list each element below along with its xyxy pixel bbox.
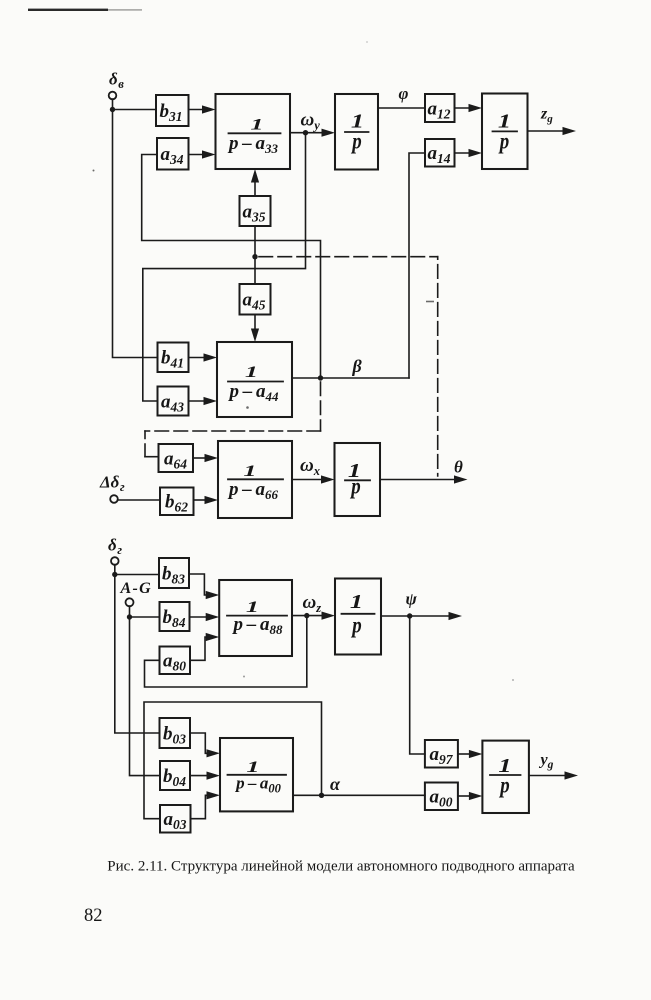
scan streak top left xyxy=(28,9,142,11)
wire xyxy=(129,606,131,617)
svg-text:Рис. 2.11. Структура линейной: Рис. 2.11. Структура линейной модели авт… xyxy=(107,859,575,875)
svg-text:yg: yg xyxy=(539,752,554,772)
svg-text:a34: a34 xyxy=(161,144,184,167)
wire beta to a14 xyxy=(409,153,425,378)
gain block a14 xyxy=(425,139,455,167)
wire b41 to U4 with arrow xyxy=(189,353,218,361)
svg-text:p: p xyxy=(498,128,509,154)
junction omega_y xyxy=(303,130,308,135)
wire b83 to U7 with arrow xyxy=(189,574,219,599)
wire omega_y feedback to a43 xyxy=(143,133,306,401)
svg-text:a80: a80 xyxy=(163,651,186,674)
svg-text:ωx: ωx xyxy=(300,455,320,478)
wire xyxy=(112,99,114,109)
wire a64 to U5 with arrow xyxy=(193,454,218,462)
terminal circle delta delta_g xyxy=(110,495,118,503)
svg-text:p – a44: p – a44 xyxy=(227,381,279,404)
integrator block U3 1/p xyxy=(482,94,528,170)
svg-text:p – a33: p – a33 xyxy=(227,133,279,156)
wire A-G to b84 xyxy=(130,616,160,618)
svg-text:p – a00: p – a00 xyxy=(234,774,282,796)
svg-text:a64: a64 xyxy=(164,449,187,472)
svg-text:82: 82 xyxy=(84,906,103,926)
gain block b41 xyxy=(158,343,189,373)
dashed wire beta to a64 xyxy=(145,378,321,457)
wire U1 output to U2 with arrow xyxy=(290,129,335,137)
svg-text:p: p xyxy=(351,612,362,638)
junction alpha xyxy=(319,793,324,798)
svg-text:Δδг: Δδг xyxy=(99,473,125,495)
gain block a80 xyxy=(160,647,191,675)
wire y_g output arrow xyxy=(529,771,578,779)
wire theta node vertical a35-a45 xyxy=(254,226,256,284)
wire xyxy=(114,565,116,575)
wire a43 to U4 with arrow xyxy=(189,397,218,405)
wire a12 to U3 with arrow xyxy=(455,104,483,112)
junction theta tap xyxy=(252,254,257,259)
svg-text:b62: b62 xyxy=(165,492,188,515)
integrator block U9 1/(p-a00) xyxy=(220,738,293,811)
svg-text:ψ: ψ xyxy=(406,590,418,609)
svg-text:b84: b84 xyxy=(163,607,186,630)
wire a03 to U9 with arrow xyxy=(191,791,221,819)
dashed wire theta to tap (horizontal) xyxy=(255,256,438,258)
gain block a00 xyxy=(425,783,458,811)
svg-text:θ: θ xyxy=(454,458,463,477)
svg-text:p: p xyxy=(351,128,362,154)
svg-text:p: p xyxy=(350,473,361,499)
svg-text:b83: b83 xyxy=(162,564,185,587)
gain block b31 xyxy=(156,95,189,126)
svg-text:b41: b41 xyxy=(161,348,184,371)
svg-text:b04: b04 xyxy=(163,766,186,789)
svg-text:φ: φ xyxy=(399,84,409,103)
wire beta feedback to a34 xyxy=(142,155,321,379)
junction omega_z xyxy=(304,613,309,618)
terminal circle delta_g xyxy=(111,557,119,565)
gain block a34 xyxy=(157,138,189,170)
gain block b62 xyxy=(160,488,194,516)
gain block a03 xyxy=(160,805,191,833)
wire b04 to U9 with arrow xyxy=(190,772,220,780)
svg-text:1: 1 xyxy=(243,462,256,479)
wire delta_v to b31 xyxy=(113,109,157,111)
svg-text:1: 1 xyxy=(245,363,258,380)
wire omega_z feedback to a80 xyxy=(145,616,307,687)
wire b84 to U7 with arrow xyxy=(190,613,220,621)
svg-text:ωy: ωy xyxy=(301,110,321,133)
svg-text:1: 1 xyxy=(250,116,263,133)
gain block a45 xyxy=(240,284,271,315)
integrator block U8 1/p xyxy=(335,579,381,655)
wire b31 to U1 with arrow xyxy=(189,105,216,113)
wire a97 to U10 with arrow xyxy=(458,750,483,758)
terminal circle delta_v xyxy=(109,92,117,100)
svg-text:b31: b31 xyxy=(160,101,183,124)
junction beta xyxy=(318,375,323,380)
gain block a97 xyxy=(425,740,458,768)
svg-text:β: β xyxy=(352,356,363,376)
wire A-G vertical to b04 xyxy=(130,617,161,776)
dashed wire theta vertical xyxy=(437,257,439,476)
svg-text:a45: a45 xyxy=(243,290,266,313)
wire z_g output arrow xyxy=(528,127,577,135)
svg-text:p: p xyxy=(499,772,510,798)
wire psi output arrow xyxy=(381,612,462,620)
gain block a35 xyxy=(240,196,271,226)
integrator block U7 1/(p-a88) xyxy=(219,580,292,656)
ink specks xyxy=(93,41,515,681)
wire psi to a97 xyxy=(410,616,425,754)
gain block b83 xyxy=(159,558,189,588)
junction psi xyxy=(407,613,412,618)
svg-text:a00: a00 xyxy=(430,787,453,810)
wire a35 to U1 with up arrow xyxy=(251,169,259,196)
svg-text:δг: δг xyxy=(108,536,122,558)
wire U5 to U6 with arrow xyxy=(292,475,335,483)
wire to b62 xyxy=(118,499,160,501)
integrator block U4 1/(p-a44) xyxy=(217,342,292,417)
svg-text:p – a88: p – a88 xyxy=(231,614,283,637)
wire a34 to U1 with arrow xyxy=(189,150,216,158)
svg-text:α: α xyxy=(330,774,341,794)
integrator block U5 1/(p-a66) xyxy=(218,441,292,518)
integrator block U10 1/p xyxy=(482,741,529,813)
svg-text:a14: a14 xyxy=(428,143,451,166)
wire beta output xyxy=(292,377,409,379)
integrator block U1 1/(p-a33) xyxy=(216,94,291,169)
svg-text:b03: b03 xyxy=(163,724,186,747)
svg-text:A - G: A - G xyxy=(120,580,152,597)
svg-text:ωz: ωz xyxy=(303,592,322,615)
svg-text:a03: a03 xyxy=(164,809,187,832)
svg-text:δв: δв xyxy=(109,70,124,92)
svg-text:a35: a35 xyxy=(243,202,266,225)
junction A-G xyxy=(127,614,132,619)
wire a80 to U7 with arrow xyxy=(190,633,219,660)
wire a00 to U10 with arrow xyxy=(458,792,483,800)
wire U7 to U8 with arrow xyxy=(292,612,335,620)
wire delta_g vertical to b03 xyxy=(115,575,160,734)
wire b03 to U9 with arrow xyxy=(190,733,220,757)
gain block a12 xyxy=(425,94,455,122)
gain block b04 xyxy=(160,761,190,790)
gain block a43 xyxy=(158,387,189,416)
wire U2 to a12 xyxy=(378,107,425,109)
svg-text:a97: a97 xyxy=(430,744,454,767)
svg-text:a43: a43 xyxy=(161,392,184,415)
svg-text:a12: a12 xyxy=(428,99,451,122)
wire b62 to U5 with arrow xyxy=(194,496,219,504)
junction delta_g xyxy=(112,572,117,577)
wire a45 to U4 with down arrow xyxy=(251,315,259,343)
integrator block U2 1/p xyxy=(335,94,378,170)
svg-text:1: 1 xyxy=(246,598,259,615)
wire alpha feedback to a03 xyxy=(144,702,322,819)
terminal circle A-G xyxy=(126,598,134,606)
wire delta_v vertical to b41 xyxy=(113,110,158,358)
junction at delta_v xyxy=(110,107,115,112)
wire alpha to gain a00 xyxy=(293,794,425,796)
svg-text:p – a66: p – a66 xyxy=(227,479,279,502)
svg-text:zg: zg xyxy=(540,106,553,126)
wire theta output arrow xyxy=(380,475,468,483)
gain block b84 xyxy=(160,602,190,631)
wire delta_g to b83 xyxy=(115,574,159,576)
svg-text:1: 1 xyxy=(350,591,363,613)
integrator block U6 1/p xyxy=(335,443,381,516)
wire a14 to U3 with arrow xyxy=(455,149,483,157)
gain block a64 xyxy=(159,444,194,472)
gain block b03 xyxy=(160,718,191,748)
